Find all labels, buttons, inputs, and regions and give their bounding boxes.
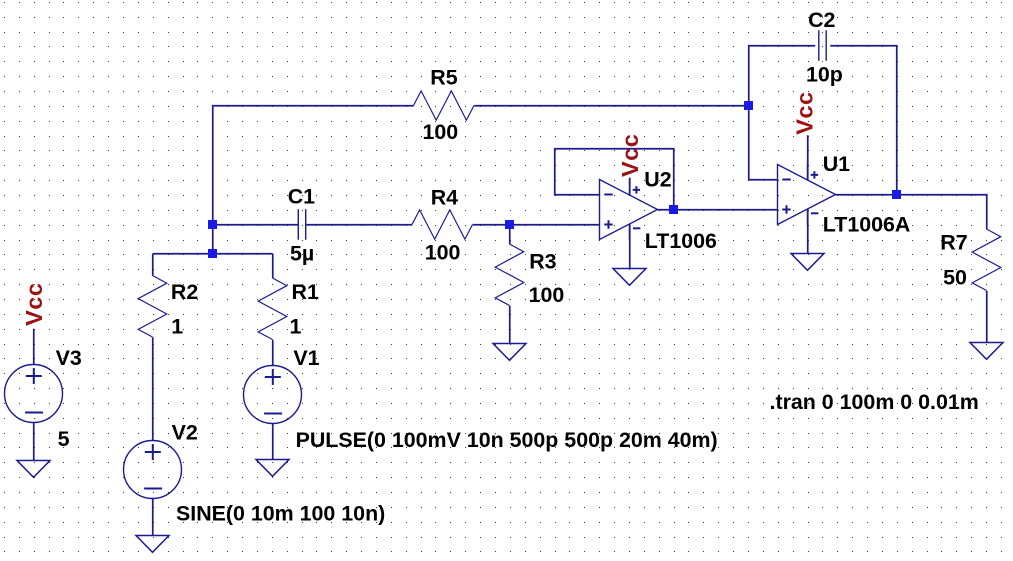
svg-text:1: 1 <box>290 315 302 339</box>
svg-text:Vcc: Vcc <box>617 134 643 177</box>
svg-text:U1: U1 <box>823 152 850 176</box>
svg-text:PULSE(0 100mV 10n 500p 500p 20: PULSE(0 100mV 10n 500p 500p 20m 40m) <box>296 428 718 452</box>
svg-text:R7: R7 <box>940 231 967 255</box>
svg-text:5: 5 <box>58 427 70 451</box>
svg-text:V2: V2 <box>172 421 198 445</box>
svg-text:SINE(0 10m 100 10n): SINE(0 10m 100 10n) <box>176 501 385 525</box>
svg-text:100: 100 <box>423 120 459 144</box>
svg-text:LT1006: LT1006 <box>645 229 717 253</box>
svg-text:R3: R3 <box>529 249 556 273</box>
svg-text:100: 100 <box>425 240 461 264</box>
svg-text:5µ: 5µ <box>290 242 314 266</box>
svg-text:U2: U2 <box>644 167 671 191</box>
svg-text:50: 50 <box>943 265 967 289</box>
svg-text:Vcc: Vcc <box>792 91 818 134</box>
svg-text:LT1006A: LT1006A <box>823 212 911 236</box>
svg-text:V1: V1 <box>293 346 319 370</box>
svg-text:R1: R1 <box>292 280 319 304</box>
svg-text:1: 1 <box>171 315 183 339</box>
svg-text:C2: C2 <box>808 8 835 32</box>
svg-text:R2: R2 <box>171 280 198 304</box>
svg-text:R4: R4 <box>431 186 458 210</box>
svg-text:C1: C1 <box>288 185 315 209</box>
svg-text:Vcc: Vcc <box>21 283 47 326</box>
svg-text:100: 100 <box>529 283 565 307</box>
svg-text:V3: V3 <box>56 346 82 370</box>
svg-text:10p: 10p <box>806 62 843 86</box>
svg-text:.tran 0 100m 0 0.01m: .tran 0 100m 0 0.01m <box>770 390 979 414</box>
svg-text:R5: R5 <box>430 66 457 90</box>
